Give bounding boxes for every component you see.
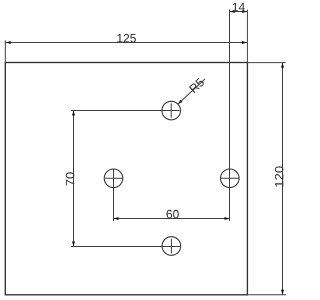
hole right <box>221 169 240 188</box>
leader R5 line <box>178 79 205 104</box>
hole right horizontal crosshair <box>220 177 239 179</box>
dim 125 arrow right <box>242 41 247 44</box>
dim 120 extension line bottom <box>248 294 287 296</box>
dim 120 extension line top <box>248 62 286 64</box>
hole top <box>162 101 181 120</box>
dim 70 line <box>73 111 75 247</box>
leader R5 text (rotated 45) <box>189 78 205 94</box>
hole bottom <box>162 237 181 256</box>
dim 14 arrow right <box>242 10 247 13</box>
hole left horizontal crosshair <box>105 177 124 179</box>
dim 70 arrow top <box>72 111 75 116</box>
dim 125 line <box>5 42 247 44</box>
dim 120 arrow bottom <box>281 290 284 295</box>
dim 120 line <box>282 63 284 295</box>
hole top vertical crosshair <box>170 103 172 117</box>
left hole vertical centerline (60 dim left ext) <box>113 169 115 222</box>
dim 125/14 extension line right (plate right edge extended up) <box>246 10 248 63</box>
centerline through right hole (14 dim left ext / 60 dim right ext) <box>229 10 231 222</box>
leader R5 arrow <box>178 100 183 104</box>
dim 60 arrow right <box>225 217 230 220</box>
dim 14 text <box>233 3 245 11</box>
hole bottom vertical crosshair <box>170 239 172 254</box>
dim 60 text <box>167 210 179 219</box>
dim 70 extension line top (top hole horizontal centerline) <box>71 110 180 112</box>
dim 60 arrow left <box>114 217 119 220</box>
dim 125 text <box>117 34 136 43</box>
dim 14 line <box>230 11 248 13</box>
dim 70 text (rotated) <box>66 172 75 185</box>
dim 125 extension line left <box>4 40 6 62</box>
dim 60 line <box>114 218 230 220</box>
dim 70 extension line bottom (bottom hole horizontal centerline) <box>71 246 180 248</box>
plate outline <box>5 63 247 295</box>
dim 70 arrow bottom <box>72 242 75 247</box>
dim 120 text (rotated) <box>275 166 284 186</box>
dim 14 arrow left <box>230 10 235 13</box>
hole left <box>104 169 123 188</box>
dim 120 arrow top <box>281 63 284 68</box>
dim 125 arrow left <box>6 41 11 44</box>
